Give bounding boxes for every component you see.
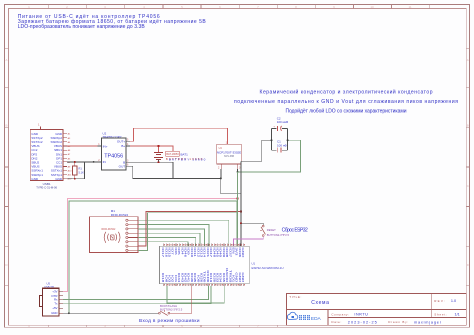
- svg-text:BATTERY 18650: BATTERY 18650: [169, 157, 206, 161]
- svg-text:TYPE-C-31-M-06: TYPE-C-31-M-06: [36, 186, 57, 190]
- svg-text:USB1: USB1: [43, 182, 51, 186]
- connector USB1 TYPE-C-31-M-06: [30, 123, 72, 190]
- junction RFID power band on GND corridor: [240, 211, 242, 213]
- pins left: [97, 145, 101, 147]
- svg-text:TITLE:: TITLE:: [289, 295, 301, 299]
- wire RFID pin6 (green): [138, 242, 188, 246]
- note: power-path annotation (top left, blue): [18, 14, 207, 30]
- wire RFID pin7 (red) up to 3V3 band: [138, 212, 241, 247]
- svg-text:INRTU: INRTU: [354, 313, 368, 317]
- svg-text:IN+: IN+: [103, 144, 108, 148]
- wire IO0 (maroon) boot to ESP32: [170, 286, 192, 313]
- svg-text:BAT1: BAT1: [181, 152, 189, 156]
- wire GND ring (green) USB TTL around to corridor: [69, 201, 237, 313]
- svg-text:GND: GND: [51, 311, 57, 315]
- junction LDO VOUT node: [237, 171, 239, 173]
- wire (green) ESP32 IO down-loop: [167, 286, 224, 303]
- svg-text:OUT: OUT: [119, 165, 126, 169]
- svg-text:U1: U1: [252, 262, 256, 266]
- svg-text:GND: GND: [55, 177, 63, 181]
- button BOOT/FLASH: [159, 304, 183, 315]
- junction caps left rail: [271, 139, 273, 141]
- svg-text:подключенные параллельно к GND: подключенные параллельно к GND и Vout дл…: [234, 99, 458, 105]
- pins right: [126, 140, 130, 142]
- svg-text:Подойдёт любой LDO со схожими: Подойдёт любой LDO со схожими характерис…: [286, 107, 407, 114]
- note: capacitor annotation (right, blue): [234, 88, 458, 114]
- junction dots on CC wire: [74, 161, 76, 163]
- svg-text:10: 10: [370, 5, 374, 9]
- svg-text:GND: GND: [31, 177, 39, 181]
- frame column ticks top: [49, 5, 430, 9]
- svg-text:Drawn By:: Drawn By:: [388, 320, 408, 324]
- svg-text:LDO-преобразователь понижает н: LDO-преобразователь понижает напряжение …: [18, 24, 146, 30]
- wire GND corridor (dark) down to ESP32: [240, 161, 242, 246]
- wire GND (dark) caps to corridor: [241, 140, 272, 161]
- svg-text:5.1K: 5.1K: [79, 170, 85, 174]
- frame row ticks right: [466, 48, 469, 286]
- wire OUT (dark) TP4056 to GND rail: [130, 166, 221, 178]
- svg-text:Вход в режим прошивки: Вход в режим прошивки: [139, 318, 200, 323]
- svg-text:Tx: Tx: [54, 302, 58, 306]
- svg-text:100 нФ: 100 нФ: [277, 143, 287, 147]
- svg-text:BUTTON2-3*6*2.5: BUTTON2-3*6*2.5: [160, 307, 183, 311]
- wire TXD (green) USB TTL to ESP32: [63, 286, 211, 304]
- svg-text:B: B: [5, 124, 7, 128]
- svg-text:IN: IN: [103, 160, 106, 164]
- wire EN (dark) to reset button: [241, 223, 263, 225]
- junction caps right rail: [287, 139, 289, 141]
- junction +3V tap on 3V3 corridor: [237, 198, 239, 200]
- svg-text:B: B: [467, 124, 469, 128]
- wire RFID pin5 (green): [138, 238, 196, 247]
- svg-text:A: A: [467, 58, 469, 62]
- svg-text:11: 11: [408, 5, 411, 9]
- wire RXD (green) USB TTL to ESP32: [63, 286, 209, 299]
- wire RFID pin4 (green): [138, 233, 200, 246]
- label column separators: [162, 247, 245, 284]
- svg-text:R1: R1: [79, 166, 83, 170]
- svg-text:Date:: Date:: [331, 320, 341, 324]
- svg-text:1/1: 1/1: [455, 313, 460, 317]
- wire 3V3 (green) LDO VOUT to caps: [238, 140, 301, 172]
- wire CC1 (dark) to TP4056 IN: [67, 161, 97, 163]
- wire 3V3 corridor (green) down to ESP32: [237, 172, 239, 246]
- wire LDO GND to rail: [220, 169, 222, 178]
- svg-text:Схема: Схема: [311, 300, 329, 306]
- svg-text:100 мкФ: 100 мкФ: [277, 120, 289, 124]
- capacitor C1 100nF ceramic: [277, 140, 287, 153]
- resistor R1 5.1K: [73, 162, 85, 180]
- wire EN (magenta) reset to ESP32: [234, 237, 264, 247]
- wire +3V (pink) USB TTL to 3V3 corridor: [63, 199, 238, 292]
- button RESET (Сброс ESP32): [260, 225, 308, 237]
- svg-text:OUT+: OUT+: [117, 139, 126, 143]
- svg-text:BUTTON2-3*6*2.5: BUTTON2-3*6*2.5: [267, 233, 290, 237]
- svg-text:ESP32-S3-WROOM-1U: ESP32-S3-WROOM-1U: [252, 266, 284, 270]
- IC U2 TP4056: [97, 131, 130, 170]
- svg-text:BAT-18650: BAT-18650: [166, 153, 179, 156]
- svg-text:+5V: +5V: [52, 306, 57, 310]
- svg-text:RFID-RC522: RFID-RC522: [102, 228, 116, 231]
- svg-text:NCV-33B: NCV-33B: [224, 155, 234, 158]
- wire GND (dark) USB TTL to boot button: [63, 312, 159, 314]
- svg-text:A: A: [5, 58, 7, 62]
- pins (circles): [126, 219, 138, 251]
- wire GND step to corridor: [221, 178, 241, 193]
- frame row ticks left: [5, 48, 9, 286]
- svg-text:B+: B+: [121, 144, 125, 148]
- svg-text:Sheet:: Sheet:: [434, 312, 447, 316]
- frame column ticks bottom: [49, 325, 278, 327]
- svg-text:RFID-RC522: RFID-RC522: [111, 213, 129, 217]
- wire VBUS (red) USB to TP4056 IN+: [67, 145, 97, 147]
- module M1 RFID-RC522: [90, 209, 139, 253]
- wire LDO VOUT down: [237, 169, 239, 172]
- wire B+ (red) TP4056 to battery +: [130, 146, 173, 151]
- svg-text:REV:: REV:: [434, 299, 445, 303]
- svg-text:maximjager: maximjager: [414, 321, 442, 325]
- IC U4 LDO NCP1700T-3302E: [217, 141, 242, 169]
- svg-text:BOOT/FLASH: BOOT/FLASH: [160, 304, 177, 308]
- wire RFID pin1 (green) to ESP32: [138, 220, 229, 246]
- IC U5 USB TTL: [39, 282, 63, 317]
- svg-text:RESET: RESET: [267, 228, 276, 232]
- junction reset tap: [240, 222, 242, 224]
- svg-text:2023-02-25: 2023-02-25: [348, 321, 377, 325]
- capacitor C2 100uF electrolytic: [273, 117, 289, 131]
- junction LDO GND / battery rail: [220, 177, 222, 179]
- antenna icon: [104, 232, 120, 243]
- title block: [286, 294, 466, 326]
- logo JLC EDA: [287, 312, 321, 322]
- junction USB TTL GND: [68, 312, 70, 314]
- wire RFID pin8 (green) up to GND band: [138, 213, 237, 251]
- wire OUT+ (red) TP4056 to LDO VIN: [130, 128, 228, 144]
- wire GND (dark) USB bottom: [67, 162, 85, 179]
- wire B (dark) TP4056 to battery -: [130, 162, 173, 178]
- svg-text:Company:: Company:: [331, 312, 349, 316]
- battery BAT1 18650: [154, 145, 206, 163]
- wire RFID pin2 (green): [138, 225, 209, 247]
- svg-text:Керамический конденсатор и эле: Керамический конденсатор и электролитиче…: [260, 88, 433, 95]
- svg-text:EDA: EDA: [311, 316, 322, 322]
- svg-text:1.0: 1.0: [451, 299, 456, 303]
- svg-text:TP4056: TP4056: [104, 154, 123, 160]
- wire RFID pin3 (green): [138, 229, 205, 246]
- svg-text:Сброс ESP32: Сброс ESP32: [282, 228, 308, 234]
- capacitor ladder rails: [272, 128, 288, 150]
- module U1 ESP32-S3-WROOM-1U: [160, 244, 284, 286]
